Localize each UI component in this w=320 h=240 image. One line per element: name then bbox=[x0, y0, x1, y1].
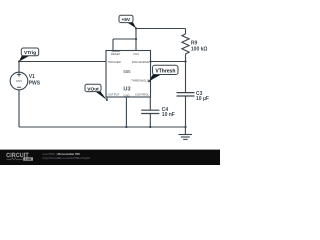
svg-text:VThresh: VThresh bbox=[155, 68, 175, 74]
svg-text:V1: V1 bbox=[29, 74, 35, 80]
svg-text:VTrig: VTrig bbox=[24, 50, 36, 56]
svg-text:TRIGGER: TRIGGER bbox=[108, 60, 121, 64]
svg-text:CSV: CSV bbox=[16, 79, 23, 83]
svg-text:OUTPUT: OUTPUT bbox=[108, 92, 120, 96]
svg-text:GND: GND bbox=[123, 93, 129, 97]
svg-text:THRESHOLD: THRESHOLD bbox=[131, 78, 149, 82]
svg-text:100 kΩ: 100 kΩ bbox=[191, 47, 208, 53]
svg-text:CONTROL: CONTROL bbox=[135, 92, 150, 96]
svg-text:LAB: LAB bbox=[25, 157, 32, 161]
svg-text:U3: U3 bbox=[123, 86, 130, 92]
svg-text:10 µF: 10 µF bbox=[196, 96, 209, 102]
svg-text:555: 555 bbox=[123, 69, 131, 74]
svg-text:RESET: RESET bbox=[111, 52, 121, 56]
svg-text:VOut: VOut bbox=[87, 86, 99, 92]
svg-text:VCC: VCC bbox=[133, 52, 139, 56]
svg-text:10 nF: 10 nF bbox=[162, 112, 175, 118]
svg-text:PWS: PWS bbox=[29, 80, 41, 86]
svg-text:http://circuitlab.com/c42rf86m: http://circuitlab.com/c42rf86mf7qwd bbox=[43, 156, 91, 160]
svg-text:DISCHARGE: DISCHARGE bbox=[132, 60, 149, 64]
svg-text:+5V: +5V bbox=[121, 17, 130, 23]
